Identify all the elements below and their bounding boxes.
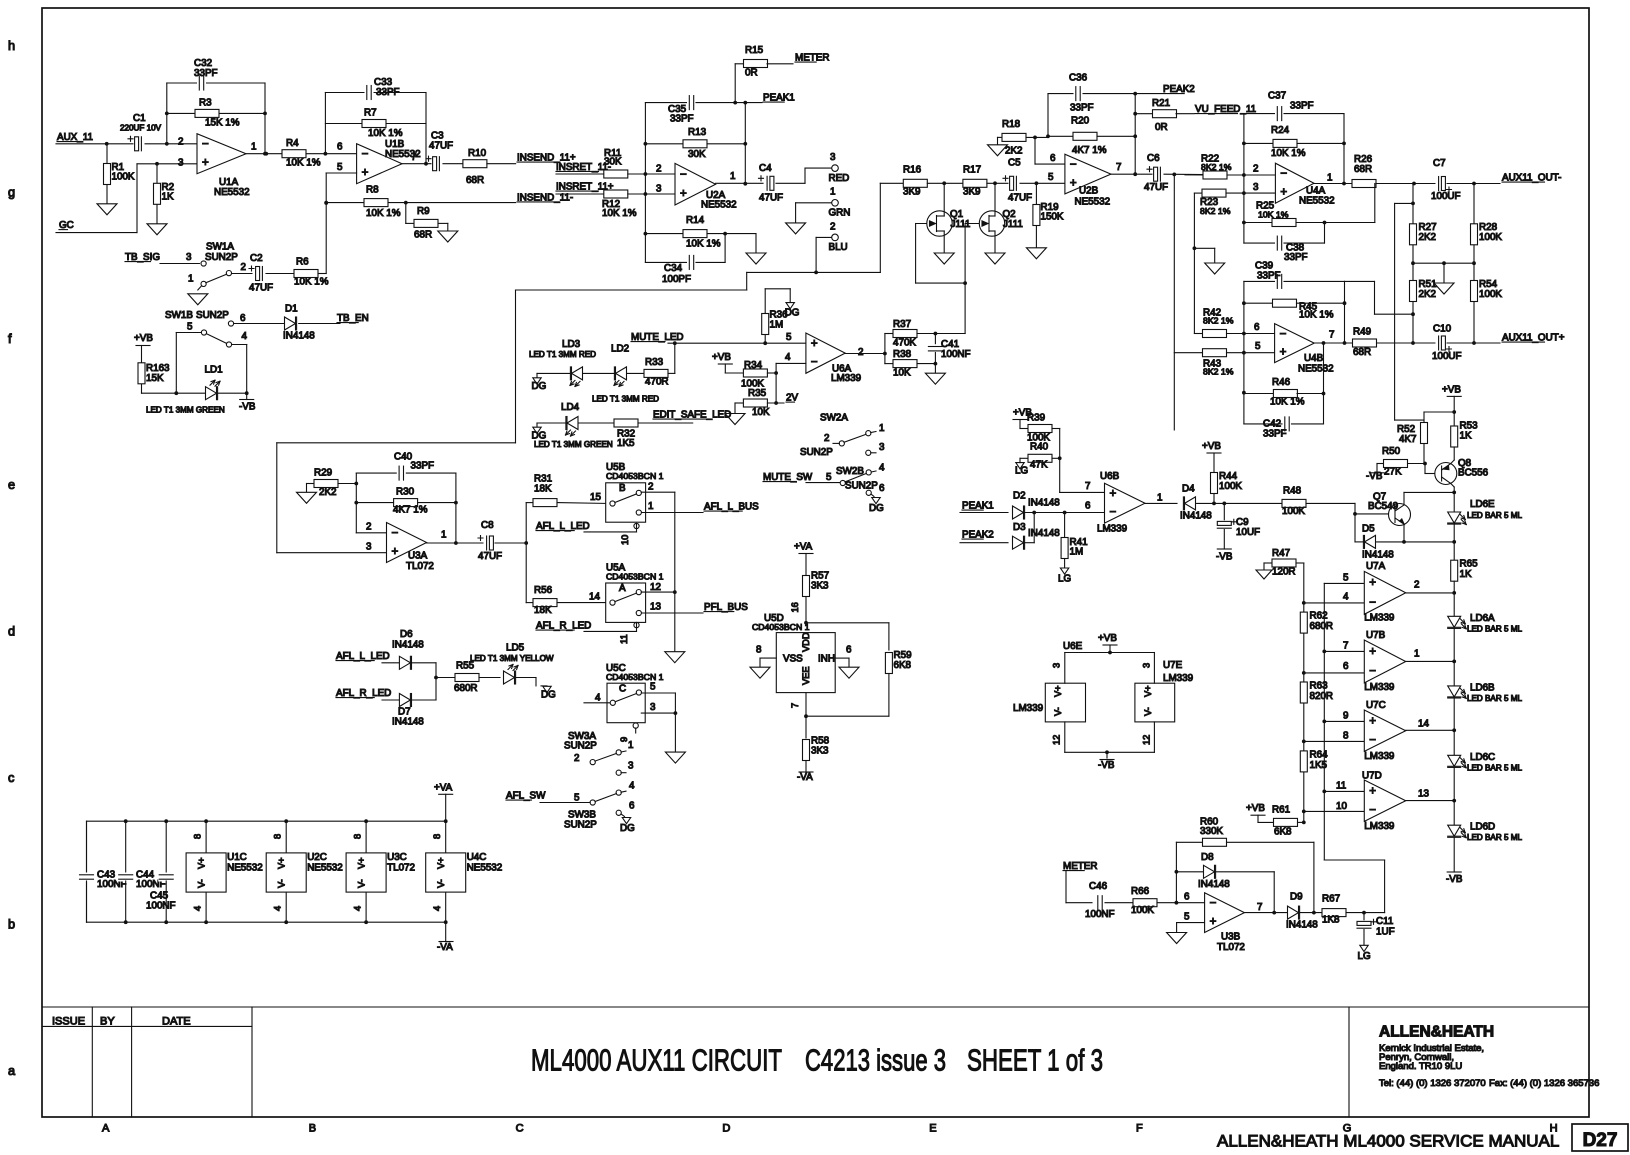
svg-text:g: g [8,184,15,199]
svg-text:+: + [1280,186,1287,199]
wire [1453,629,1455,686]
ground [934,253,954,264]
svg-text:4K7 1%: 4K7 1% [393,505,428,516]
svg-text:LM339: LM339 [831,373,862,384]
svg-text:8: 8 [1343,731,1349,742]
svg-text:47UF: 47UF [1008,193,1032,204]
resistor R23 [1194,192,1202,194]
capacitor C43 [86,821,88,873]
svg-text:+: + [1110,487,1117,500]
op-amp U2B [1065,154,1111,194]
svg-text:R29: R29 [314,468,333,479]
svg-text:27K: 27K [1384,467,1402,478]
svg-text:8: 8 [756,645,762,656]
wire [1197,502,1284,504]
svg-text:LD4: LD4 [561,402,580,413]
svg-text:10K: 10K [893,368,911,379]
svg-text:LED T1 3MM RED: LED T1 3MM RED [592,395,659,404]
resistor R11 [604,170,628,178]
svg-text:D9: D9 [1290,892,1303,903]
wire [579,422,614,424]
svg-text:4: 4 [242,331,248,342]
ground [925,373,945,384]
svg-text:R63: R63 [1310,681,1329,692]
wire [796,202,832,204]
resistor R55 [455,674,479,682]
wire [764,289,766,314]
wire [516,677,536,679]
svg-text:470K: 470K [893,338,916,349]
wire [1453,525,1455,561]
svg-text:1: 1 [879,423,884,434]
svg-text:R38: R38 [893,349,912,360]
resistor R34 [743,369,767,377]
ground [1026,248,1046,259]
wire [746,272,748,290]
+VB rail [136,345,150,347]
svg-text:100K: 100K [1219,481,1242,492]
wire [816,236,831,238]
svg-text:V+: V+ [277,857,287,869]
svg-text:C4: C4 [759,163,772,174]
svg-text:LED T1 3MM YELLOW: LED T1 3MM YELLOW [470,654,554,663]
wire [556,193,603,195]
svg-text:−: − [1369,665,1376,678]
capacitor C4 [764,175,775,191]
digital ground DG [786,303,794,309]
wire [540,802,590,804]
svg-text:100UF: 100UF [1432,351,1462,362]
transistor Q2 J111 [965,223,986,225]
svg-text:10UF: 10UF [1236,527,1260,538]
capacitor C45 [165,821,167,873]
svg-text:+: + [362,166,369,179]
svg-text:R6: R6 [296,257,309,268]
svg-text:7: 7 [1085,481,1090,492]
svg-text:2K2: 2K2 [1419,289,1437,300]
svg-text:5: 5 [1255,341,1261,352]
svg-text:−: − [362,148,369,161]
svg-text:4: 4 [785,352,791,363]
wire [1025,512,1105,514]
svg-text:1: 1 [830,187,835,198]
wire [1406,800,1455,802]
resistor R32 [614,419,638,427]
svg-text:LM339: LM339 [1364,613,1395,624]
svg-text:IN4148: IN4148 [1198,879,1230,890]
svg-text:3: 3 [650,702,656,713]
resistor R31 [526,502,533,504]
svg-text:England. TR10 9LU: England. TR10 9LU [1379,1061,1462,1072]
svg-text:V-: V- [277,879,287,888]
-VB [240,399,254,401]
capacitor C39 [1244,280,1275,282]
wire C35 loop [645,102,687,104]
wire [1453,447,1455,460]
svg-text:C10: C10 [1433,324,1452,335]
svg-text:C46: C46 [1089,881,1108,892]
svg-text:3: 3 [830,152,836,163]
IC U6E power [1045,683,1085,722]
connector pin RED [832,165,839,172]
svg-text:C8: C8 [481,520,494,531]
node [804,621,808,625]
wire [1105,902,1133,904]
wire [1376,183,1500,185]
svg-text:R61: R61 [1272,805,1290,816]
svg-text:U7B: U7B [1366,630,1386,641]
wire out [1111,173,1154,175]
svg-text:33PF: 33PF [1290,101,1314,112]
svg-text:3: 3 [1253,182,1259,193]
wire [266,273,296,275]
wire [234,323,286,325]
capacitor C6 [1153,166,1164,182]
resistor R40 [1028,454,1052,462]
svg-text:+: + [1369,645,1376,658]
svg-text:3K3: 3K3 [811,746,829,757]
resistor R53 [1451,426,1458,447]
resistor R56 [526,602,533,604]
svg-text:4: 4 [879,463,885,474]
svg-text:2K2: 2K2 [319,487,337,498]
wire [724,364,726,373]
wire [734,403,736,414]
capacitor C8 [484,535,495,551]
svg-text:LM339: LM339 [1364,751,1395,762]
wire [232,344,247,346]
svg-text:−: − [1369,733,1376,746]
svg-text:R20: R20 [1071,116,1090,127]
+VB [1447,395,1461,397]
capacitor C41 [934,334,936,346]
wire [56,232,137,234]
svg-text:2: 2 [858,347,863,358]
wire [412,699,437,701]
wire base Q7 [1355,513,1391,515]
svg-text:NE5532: NE5532 [701,200,737,211]
svg-text:10K 1%: 10K 1% [1270,397,1305,408]
svg-text:V-: V- [357,879,367,888]
ground [438,231,458,242]
ground [665,752,685,763]
svg-text:4K7 1%: 4K7 1% [1072,145,1107,156]
op-amp U3B [1205,893,1245,933]
capacitor C38 [1244,242,1275,244]
svg-text:10K 1%: 10K 1% [294,277,329,288]
diode D8 [1176,871,1203,873]
ground [188,294,208,305]
svg-text:C34: C34 [664,263,683,274]
svg-text:DATE: DATE [162,1016,191,1028]
svg-text:14: 14 [589,592,600,603]
capacitor C36 [1074,86,1083,102]
wire out [427,542,483,544]
svg-text:Tel: (44) (0) 1326 372070: Tel: (44) (0) 1326 372070 [1379,1078,1486,1089]
svg-text:2: 2 [1414,580,1419,591]
capacitor C33 [365,85,374,101]
wire out [1244,912,1287,914]
wire pin5 [1177,922,1205,924]
LED LD6B [1448,686,1461,697]
svg-text:TL072: TL072 [1217,942,1245,953]
svg-text:1: 1 [441,530,446,541]
svg-text:BC549: BC549 [1368,501,1399,512]
svg-text:-VA: -VA [437,942,453,953]
resistor R21 [1135,113,1153,115]
svg-text:4: 4 [629,781,635,792]
svg-text:1M: 1M [1070,547,1084,558]
svg-text:−: − [1210,897,1217,910]
resistor R9 [405,203,407,224]
svg-text:V-: V- [1053,707,1063,716]
svg-text:8K2 1%: 8K2 1% [1201,162,1232,172]
ground [725,414,745,425]
svg-text:11: 11 [1336,781,1346,792]
wire [917,363,935,365]
svg-text:1: 1 [648,501,653,512]
resistor R26 [1352,180,1376,188]
svg-text:R49: R49 [1353,327,1372,338]
wire [1395,202,1413,204]
svg-text:100K: 100K [1479,289,1502,300]
resistor R13 [645,143,684,145]
svg-text:VDD: VDD [801,632,811,652]
svg-text:47K: 47K [1030,460,1048,471]
wire [960,512,1008,514]
svg-text:16: 16 [790,602,800,612]
svg-text:13: 13 [650,602,661,613]
wire C36 loop [1048,93,1135,95]
wire [382,662,399,664]
svg-text:−: − [1280,327,1287,340]
svg-text:2K2: 2K2 [1419,232,1437,243]
wire [338,483,356,485]
svg-text:−: − [680,168,687,181]
svg-text:3: 3 [879,442,885,453]
svg-text:7: 7 [790,703,800,708]
svg-text:1K: 1K [162,192,174,203]
svg-text:30K: 30K [688,149,706,160]
svg-text:J111: J111 [1003,219,1023,230]
svg-text:12: 12 [1142,735,1152,745]
capacitor C42 [1244,423,1282,425]
svg-text:C6: C6 [1147,153,1160,164]
op-amp U4B [1275,324,1315,363]
svg-text:NE5532: NE5532 [1298,364,1334,375]
resistor R15 [744,60,768,68]
ground [147,224,167,235]
svg-text:R8: R8 [366,185,379,196]
wire [1453,581,1455,616]
wire out [1145,502,1177,504]
wire C33 loop [325,92,426,94]
svg-text:+VB: +VB [712,352,731,363]
svg-text:−: − [392,527,399,540]
wire [276,443,278,553]
capacitor C32 [197,75,206,91]
svg-text:100NF: 100NF [146,901,176,912]
svg-text:6: 6 [1343,661,1349,672]
svg-text:V+: V+ [1143,685,1153,697]
ground [839,667,859,678]
svg-text:LED BAR 5 ML: LED BAR 5 ML [1467,764,1522,773]
wire [1406,660,1455,662]
wire pin2 [356,532,386,534]
capacitor C35 [687,95,696,111]
resistor R51 [1410,281,1417,302]
svg-text:68R: 68R [466,175,484,186]
svg-text:ALLEN&HEATH ML4000 SERVICE MAN: ALLEN&HEATH ML4000 SERVICE MANUAL [1217,1132,1559,1151]
wire [1346,912,1385,914]
svg-text:U3C: U3C [387,852,407,863]
svg-text:-VA: -VA [797,772,813,783]
capacitor C10 [1436,335,1447,351]
svg-text:VSS: VSS [783,654,803,665]
ground [1205,263,1225,274]
diode D1 [285,317,296,330]
svg-text:B: B [309,1123,316,1135]
svg-text:2: 2 [830,222,835,233]
wire [987,182,1009,184]
wire [56,143,134,145]
svg-text:IN4148: IN4148 [1028,498,1060,509]
wire [641,692,675,694]
resistor R42 [1194,333,1202,335]
svg-text:10K: 10K [752,407,770,418]
wire [960,542,1008,544]
svg-text:2: 2 [656,164,661,175]
resistor R61 [1274,818,1298,826]
capacitor C7 [1436,176,1447,192]
svg-text:LG: LG [1358,951,1371,962]
diode D7 [399,694,410,707]
resistor R3 [167,112,265,114]
wire [218,392,247,394]
svg-text:d: d [8,624,15,639]
svg-text:7: 7 [1343,641,1348,652]
wire [198,286,202,290]
svg-text:IN4148: IN4148 [1180,511,1212,522]
svg-text:6: 6 [1184,892,1190,903]
resistor R36 [764,313,766,343]
wire [1164,173,1203,175]
op-amp U3A [387,523,427,563]
svg-text:C4213 issue 3: C4213 issue 3 [805,1043,946,1078]
svg-text:8: 8 [353,834,363,839]
capacitor C3 [432,156,443,172]
ground [1167,933,1187,944]
wire [1376,464,1378,473]
svg-text:IN4148: IN4148 [1362,550,1394,561]
svg-text:SUN2P: SUN2P [205,252,238,263]
svg-text:33PF: 33PF [1284,252,1308,263]
resistor R18 [998,136,1003,138]
svg-text:U4B: U4B [1304,353,1324,364]
svg-text:LG: LG [1015,466,1028,477]
wire [556,173,603,175]
ground [746,253,766,264]
svg-text:0R: 0R [1155,122,1168,133]
wire [584,630,637,632]
supply rails [87,820,446,822]
connector pin BLU [832,234,839,241]
svg-text:LED BAR 5 ML: LED BAR 5 ML [1467,511,1522,520]
svg-text:−: − [1110,506,1117,519]
svg-text:TL072: TL072 [387,863,415,874]
wire [1052,428,1060,430]
svg-text:R62: R62 [1310,611,1328,622]
svg-text:C: C [619,684,626,695]
svg-text:ALLEN&HEATH: ALLEN&HEATH [1379,1024,1494,1041]
LED LD5 [504,671,515,684]
resistor R47 [1264,562,1273,564]
resistor R27 [1412,184,1414,344]
LED LD6A [1448,616,1461,627]
IC U1C power [205,821,207,853]
svg-text:5: 5 [1184,912,1190,923]
svg-text:2: 2 [648,482,653,493]
transistor Q7 BC549 [1389,504,1411,526]
svg-text:+: + [1280,345,1287,358]
svg-text:U4C: U4C [467,852,487,863]
resistor R49 [1353,339,1377,347]
capacitor C1 [134,136,145,152]
page code box [1572,1124,1628,1151]
svg-text:820R: 820R [1310,691,1334,702]
svg-text:6: 6 [337,142,343,153]
svg-text:h: h [8,38,15,53]
wire [1453,838,1455,872]
svg-text:A: A [619,583,626,594]
svg-text:0R: 0R [745,68,758,79]
wire out U1A [246,153,282,155]
wire C32 loop [167,82,265,84]
wire [1216,871,1275,873]
wire pin5 [326,172,356,174]
resistor R66 [1133,899,1157,907]
wire [1404,491,1454,493]
+VA [799,553,813,555]
svg-text:R21: R21 [1152,98,1170,109]
wire [1406,592,1455,594]
capacitor C37 [1244,113,1275,115]
resistor R41 [1064,513,1066,569]
svg-text:C11: C11 [1376,916,1393,927]
svg-text:8: 8 [193,834,203,839]
svg-text:INH: INH [818,654,835,665]
svg-text:DG: DG [620,823,635,834]
svg-text:5: 5 [786,332,792,343]
diode D5 [1355,541,1364,543]
connector pin GRN [832,200,839,207]
svg-text:BLU: BLU [829,242,848,253]
svg-text:DG: DG [785,308,800,319]
wire [145,143,198,145]
wire [668,342,806,344]
svg-text:4: 4 [273,906,283,911]
svg-text:-VB: -VB [1098,760,1115,771]
resistor R14 [645,233,684,235]
wire [628,173,675,175]
-VB [1217,548,1231,550]
svg-text:33PF: 33PF [1257,271,1281,282]
feedback verticals U4A [1243,114,1245,244]
svg-text:C1: C1 [133,113,146,124]
wire [1313,842,1315,912]
op-amp U6A LM339 [806,333,845,373]
svg-text:47UF: 47UF [249,283,273,294]
